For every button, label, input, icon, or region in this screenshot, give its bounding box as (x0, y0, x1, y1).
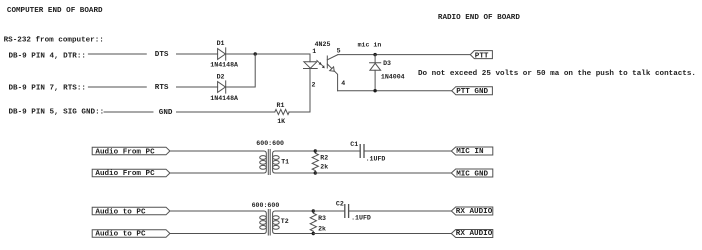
svg-text:600:600: 600:600 (256, 140, 284, 147)
emitter open arrowhead (330, 67, 335, 72)
svg-text:Do not exceed 25 volts or 50 m: Do not exceed 25 volts or 50 ma on the p… (418, 70, 696, 78)
svg-text:RX AUDIO: RX AUDIO (456, 230, 493, 238)
svg-text:Audio From PC: Audio From PC (95, 148, 155, 156)
tag Audio to PC (lower) (92, 230, 170, 238)
node PTT GND junction dot (373, 89, 376, 92)
transformer T1 secondary coil loops (273, 156, 280, 160)
svg-text:COMPUTER END OF BOARD: COMPUTER END OF BOARD (7, 7, 103, 15)
tag RX AUDIO (upper) (451, 207, 493, 215)
transformer T1 core (268, 150, 270, 175)
svg-text:4: 4 (341, 80, 345, 87)
svg-text:1N4148A: 1N4148A (210, 95, 238, 102)
svg-text:600:600: 600:600 (252, 202, 280, 209)
node R2 bottom junction dot (314, 171, 317, 174)
svg-text:R1: R1 (277, 102, 285, 109)
svg-text:2: 2 (312, 82, 316, 89)
svg-text:Audio to PC: Audio to PC (95, 209, 146, 217)
svg-text:RADIO END OF BOARD: RADIO END OF BOARD (438, 14, 520, 22)
svg-text:R2: R2 (320, 155, 328, 162)
resistor R2 (312, 151, 318, 173)
resistor R1 (275, 109, 289, 114)
svg-text:DTS: DTS (155, 51, 169, 59)
op-to LED of U1 4N25 (304, 62, 318, 69)
svg-text:C1: C1 (350, 141, 358, 148)
svg-text:RS-232 from computer::: RS-232 from computer:: (4, 37, 104, 45)
wire DTR row: label to DTS (88, 53, 146, 55)
capacitor C1 (360, 145, 364, 158)
svg-text:GND: GND (159, 109, 173, 117)
diode D3 (370, 63, 381, 71)
svg-text:MIC GND: MIC GND (456, 170, 488, 178)
LED emission arrows (317, 60, 324, 66)
wire R3 to capacitor C2 (313, 210, 344, 212)
node R3 top junction dot (312, 209, 315, 212)
svg-text:D3: D3 (383, 60, 391, 67)
svg-text:Audio From PC: Audio From PC (95, 170, 155, 178)
svg-text:.1UFD: .1UFD (351, 215, 371, 222)
svg-text:5: 5 (337, 47, 341, 54)
transformer T2 core (268, 210, 270, 236)
tag PTT GND (452, 87, 493, 95)
wire T2 primary top+bottom with winding outline (170, 211, 266, 234)
diode D1 (218, 48, 226, 60)
wire PTT GND rail (pin 4 to PTT GND tag) (338, 90, 452, 92)
wire GND to resistor R1 (177, 111, 275, 113)
diode D3 top lead (374, 55, 376, 63)
tag Audio From PC (upper) (92, 147, 170, 155)
svg-text:PTT GND: PTT GND (456, 88, 488, 96)
wire mic in rail (pin 5 to PTT tag) (338, 54, 470, 56)
phototransistor emitter with arrow to pin 4 (327, 64, 337, 91)
wire C1 to MIC IN tag (365, 150, 452, 152)
wire D2 to vertical junction riser (226, 54, 256, 87)
svg-text:T1: T1 (281, 159, 289, 166)
svg-text:D2: D2 (217, 74, 225, 81)
wire T1 primary top+bottom with winding outline (170, 151, 266, 173)
wire RTS to diode D2 (177, 86, 218, 88)
svg-text:.1UFD: .1UFD (366, 155, 386, 162)
node R3 bottom junction dot (312, 232, 315, 235)
svg-text:RTS: RTS (155, 84, 169, 92)
tag RX AUDIO (lower) (451, 230, 493, 238)
svg-text:2k: 2k (320, 163, 328, 170)
wire D1 to node A and opto pin 1 lead (226, 54, 310, 62)
wire R2 to capacitor C1 (315, 150, 359, 152)
tag Audio From PC (lower) (92, 169, 170, 177)
svg-text:MIC IN: MIC IN (456, 148, 484, 156)
svg-text:DB-9 PIN 4, DTR::: DB-9 PIN 4, DTR:: (9, 52, 86, 60)
phototransistor collector to pin 5 (327, 55, 338, 60)
wire T2 secondary top+bottom with winding outline (273, 211, 314, 234)
svg-text:C2: C2 (336, 201, 344, 208)
tag MIC GND (451, 169, 493, 177)
phototransistor of U1 4N25: base bar (326, 56, 328, 68)
wire GND row: label to GND (104, 111, 153, 113)
svg-text:D1: D1 (217, 40, 225, 47)
transformer T2 secondary coil loops (273, 216, 280, 220)
svg-text:mic in: mic in (358, 41, 382, 48)
wire R2 bottom to MIC GND tag (315, 172, 451, 174)
transformer T2 primary coil loops (260, 216, 267, 220)
svg-text:1N4148A: 1N4148A (210, 62, 238, 69)
svg-text:T2: T2 (281, 218, 289, 225)
svg-text:4N25: 4N25 (315, 41, 331, 48)
svg-text:2k: 2k (318, 225, 326, 232)
wire T1 secondary top+bottom with winding outline (273, 151, 316, 173)
wire C2 to RX AUDIO tag (349, 210, 451, 212)
node mic in junction dot (373, 53, 376, 56)
node R2 top junction dot (314, 149, 317, 152)
svg-text:DB-9 PIN 7, RTS::: DB-9 PIN 7, RTS:: (9, 84, 86, 92)
tag PTT (470, 51, 492, 59)
svg-text:1: 1 (312, 48, 316, 55)
svg-text:R3: R3 (318, 215, 326, 222)
svg-text:1N4004: 1N4004 (381, 74, 405, 81)
wire RTS row: label to RTS (88, 86, 146, 88)
tag Audio to PC (upper) (92, 207, 170, 215)
svg-text:1K: 1K (277, 118, 285, 125)
wire R3 bottom to RX AUDIO tag (313, 233, 451, 235)
diode D3 bottom lead (374, 70, 376, 90)
wire R1 to opto pin 2 (289, 69, 310, 113)
resistor R3 (310, 211, 316, 234)
svg-text:RX AUDIO: RX AUDIO (456, 208, 493, 216)
svg-text:PTT: PTT (475, 52, 489, 60)
wire DTS to diode D1 (177, 53, 218, 55)
svg-text:Audio to PC: Audio to PC (95, 231, 146, 239)
svg-text:DB-9 PIN 5, SIG GND::: DB-9 PIN 5, SIG GND:: (9, 109, 105, 117)
capacitor C2 (345, 205, 349, 218)
tag MIC IN (451, 147, 493, 155)
node A junction dot (254, 52, 257, 55)
transformer T1 primary coil loops (260, 156, 267, 160)
diode D2 (218, 81, 226, 93)
